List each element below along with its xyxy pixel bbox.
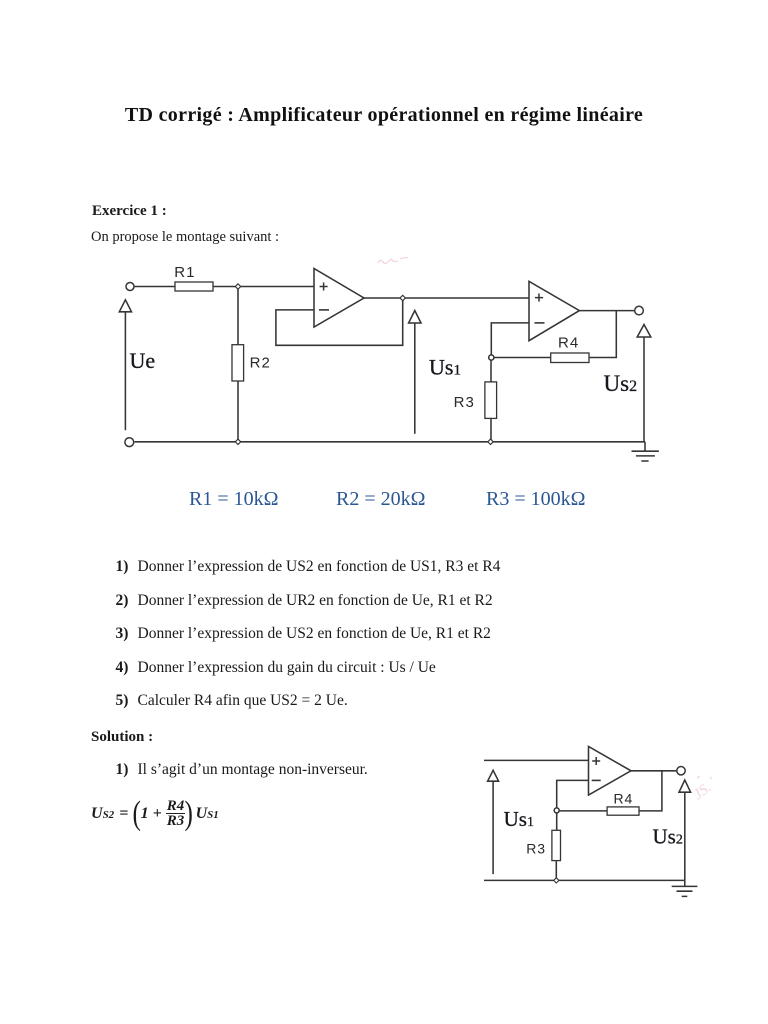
svg-text:R3: R3 [526, 841, 546, 857]
svg-text:R4: R4 [558, 335, 579, 352]
svg-text:Us1: Us1 [429, 354, 461, 379]
svg-text:Us1: Us1 [504, 807, 534, 831]
svg-text:JS.: JS. [691, 780, 715, 804]
svg-text:Us2: Us2 [653, 825, 683, 849]
svg-text:R1: R1 [174, 264, 195, 281]
svg-text:R4: R4 [614, 791, 634, 807]
svg-text:Us2: Us2 [604, 371, 638, 396]
svg-text:Ue: Ue [130, 348, 156, 373]
svg-text:R2: R2 [250, 355, 271, 372]
svg-text:R3: R3 [454, 394, 475, 411]
